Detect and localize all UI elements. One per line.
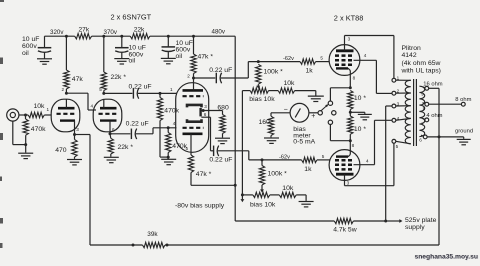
svg-text:3: 3 <box>204 104 207 109</box>
svg-text:47k *: 47k * <box>196 171 212 178</box>
svg-text:Plitron: Plitron <box>402 45 421 52</box>
svg-text:1k: 1k <box>306 67 314 74</box>
svg-text:100k *: 100k * <box>264 68 284 75</box>
svg-text:4142: 4142 <box>402 52 417 59</box>
svg-text:47k: 47k <box>72 76 84 83</box>
svg-text:5: 5 <box>396 144 399 149</box>
svg-text:oil: oil <box>129 58 136 65</box>
svg-text:22k *: 22k * <box>111 74 127 81</box>
svg-text:5: 5 <box>322 154 325 159</box>
svg-text:2: 2 <box>62 87 65 92</box>
svg-text:0-5 mA: 0-5 mA <box>293 139 315 146</box>
svg-text:0.22 uF: 0.22 uF <box>209 67 232 74</box>
svg-text:0.22 uF: 0.22 uF <box>209 157 232 164</box>
svg-text:600v: 600v <box>22 43 37 50</box>
svg-text:4: 4 <box>364 53 367 58</box>
svg-text:8: 8 <box>352 143 355 148</box>
svg-text:39k: 39k <box>147 231 158 238</box>
svg-text:bias 10k: bias 10k <box>249 96 275 103</box>
svg-text:470: 470 <box>55 147 67 154</box>
svg-text:47k *: 47k * <box>198 54 214 61</box>
svg-text:6: 6 <box>204 112 207 117</box>
svg-text:-62v: -62v <box>279 154 290 160</box>
svg-text:ground: ground <box>455 128 473 134</box>
svg-text:8: 8 <box>353 76 356 81</box>
svg-text:8: 8 <box>423 106 426 111</box>
svg-text:525v plate: 525v plate <box>405 217 437 224</box>
svg-text:3: 3 <box>76 127 79 132</box>
svg-text:10k: 10k <box>282 185 294 192</box>
svg-text:10 *: 10 * <box>354 95 366 102</box>
svg-text:oil: oil <box>22 50 29 57</box>
svg-text:10k: 10k <box>284 80 296 87</box>
svg-text:3: 3 <box>348 37 351 42</box>
svg-text:10 *: 10 * <box>354 126 366 133</box>
svg-text:10k: 10k <box>34 103 46 110</box>
svg-text:8 ohm: 8 ohm <box>455 97 471 103</box>
svg-text:27k: 27k <box>79 26 90 33</box>
svg-text:-62v: -62v <box>283 56 294 62</box>
svg-text:4: 4 <box>366 159 369 164</box>
svg-text:supply: supply <box>405 224 425 231</box>
svg-text:320v: 320v <box>50 29 64 36</box>
svg-text:160: 160 <box>259 119 271 126</box>
svg-text:sneghana35.moy.su: sneghana35.moy.su <box>415 253 478 260</box>
svg-text:2: 2 <box>397 89 400 94</box>
svg-text:1: 1 <box>47 107 50 112</box>
svg-text:16 ohm: 16 ohm <box>423 81 443 87</box>
svg-text:1: 1 <box>170 87 173 92</box>
svg-text:+: + <box>311 113 315 120</box>
svg-text:5: 5 <box>320 56 323 61</box>
svg-text:4: 4 <box>397 116 400 121</box>
svg-text:2 x KT88: 2 x KT88 <box>334 13 364 22</box>
svg-text:5: 5 <box>99 87 102 92</box>
svg-text:7: 7 <box>421 122 424 127</box>
svg-text:2 x 6SN7GT: 2 x 6SN7GT <box>111 13 152 22</box>
svg-text:(4k ohm 65w: (4k ohm 65w <box>402 60 441 67</box>
svg-text:2: 2 <box>187 74 190 79</box>
svg-text:22k: 22k <box>134 26 145 33</box>
svg-text:10 uF: 10 uF <box>22 36 39 43</box>
svg-text:with UL taps): with UL taps) <box>401 68 441 75</box>
svg-text:370v: 370v <box>104 29 118 36</box>
svg-text:1k: 1k <box>304 166 312 173</box>
svg-text:-80v bias supply: -80v bias supply <box>175 203 225 210</box>
svg-text:9: 9 <box>421 92 424 97</box>
svg-text:4: 4 <box>91 103 94 108</box>
svg-text:4.7k 5w: 4.7k 5w <box>333 227 357 234</box>
svg-text:22k *: 22k * <box>118 144 134 151</box>
svg-text:3: 3 <box>397 101 400 106</box>
svg-text:6: 6 <box>112 127 115 132</box>
svg-text:4 ohm: 4 ohm <box>426 113 442 119</box>
svg-text:470k: 470k <box>31 126 46 133</box>
svg-text:4: 4 <box>173 121 176 126</box>
svg-text:480v: 480v <box>212 28 226 35</box>
svg-text:6: 6 <box>419 138 422 143</box>
svg-text:100k *: 100k * <box>268 170 288 177</box>
svg-text:470k: 470k <box>164 107 179 114</box>
svg-text:3: 3 <box>347 181 350 186</box>
svg-text:680: 680 <box>217 104 229 111</box>
svg-text:0.22 uF: 0.22 uF <box>126 120 149 127</box>
svg-text:1: 1 <box>397 75 400 80</box>
svg-text:oil: oil <box>176 53 183 60</box>
svg-text:bias 10k: bias 10k <box>250 202 276 209</box>
svg-text:0.22 uF: 0.22 uF <box>129 84 152 91</box>
svg-text:5: 5 <box>186 146 189 151</box>
